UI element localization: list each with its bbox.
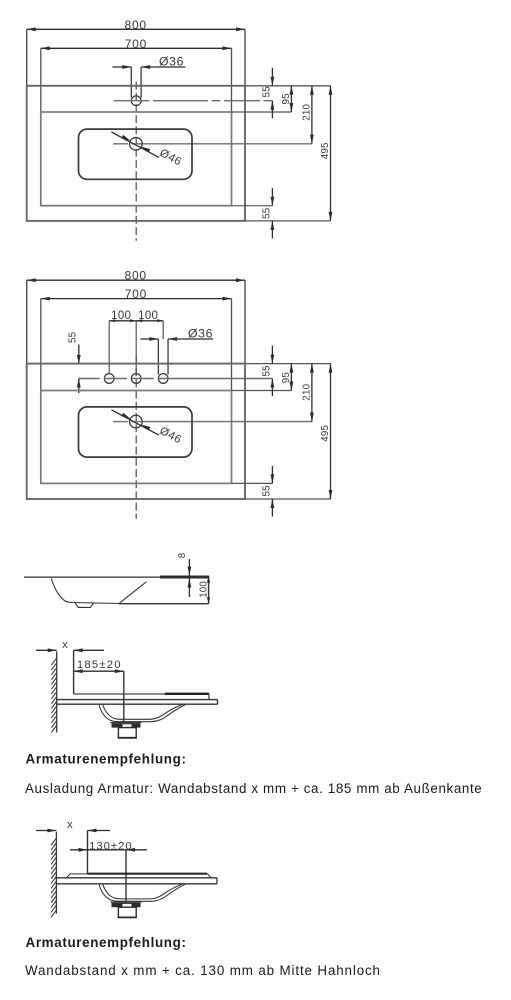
basin top edge extension (view 1) [245, 85, 331, 87]
bowl outer contour (view 4) [99, 705, 185, 722]
wall hatching (view 5) [51, 838, 56, 917]
svg-text:700: 700 [125, 37, 147, 51]
heading Armaturenempfehlung 1 [26, 752, 187, 767]
inner rim top extension (view 2) [232, 390, 292, 392]
svg-text:800: 800 [124, 18, 146, 32]
drain reference line (view 5) [125, 850, 127, 902]
dimension 800 (view 2) [27, 269, 245, 283]
svg-text:Ø36: Ø36 [188, 327, 213, 341]
basin bottom edge extension (view 2) [245, 498, 331, 500]
dimension 210 right (view 2) [302, 364, 314, 422]
dimension 700 (view 2) [41, 287, 232, 301]
inner rim bottom extension (view 1) [232, 205, 273, 207]
bowl inner contour (view 4) [103, 705, 182, 720]
heading Armaturenempfehlung 2 [26, 935, 187, 950]
drain leader line (view 1) [111, 132, 159, 157]
dimension 495 right (view 1) [320, 86, 333, 221]
counter top surface (view 5) [56, 877, 217, 879]
svg-text:55: 55 [262, 485, 273, 497]
basin top edge extension (view 2) [245, 363, 331, 365]
bowl rounded rectangle (view 1) [79, 129, 193, 179]
dimension 55 top right (view 2) [262, 346, 275, 397]
svg-text:95: 95 [281, 372, 292, 384]
dimension x (view 4) [36, 639, 104, 652]
extension line left 700 (view 2) [40, 299, 42, 391]
inner rim top extension (view 1) [232, 111, 292, 113]
extension line hole middle (view 2) [135, 321, 137, 374]
tap hole circle right Ø36 (view 2) [158, 374, 168, 384]
basin bottom edge extension (view 1) [245, 220, 331, 222]
deck front thick edge (view 4) [165, 693, 209, 695]
profile bowl contour [51, 578, 146, 603]
drain reference line (view 4) [123, 671, 125, 722]
tap hole circle left (view 2) [104, 374, 114, 384]
svg-text:95: 95 [281, 93, 292, 105]
profile top surface line [24, 576, 160, 578]
tap reference line (view 5) [87, 831, 89, 874]
extension line right 800 (view 1) [244, 29, 246, 86]
svg-text:55: 55 [262, 86, 273, 98]
svg-text:100: 100 [138, 310, 158, 322]
dimension Ø36 (view 1) [113, 55, 186, 69]
wall line (view 4) [56, 652, 58, 733]
basin outline 800x495 (view 2) [27, 364, 245, 499]
profile bottom line [119, 603, 209, 605]
text Ausladung Armatur [25, 781, 482, 796]
deck top line (view 4) [74, 693, 209, 695]
tap hole slot (view 1) [131, 67, 141, 98]
svg-text:210: 210 [302, 383, 313, 400]
basin outline 800x495 (view 1) [27, 86, 245, 221]
counter bottom surface (view 5) [56, 883, 217, 885]
tap hole centre line (view 2) [79, 378, 273, 380]
dimension 130±20 (view 5) [70, 840, 147, 852]
bowl inner contour (view 5) [103, 884, 182, 899]
profile top edge thick 8mm [160, 576, 209, 579]
tap reference line (view 4) [73, 650, 75, 694]
dimension 95 right (view 1) [281, 86, 293, 112]
svg-text:Wandabstand x mm + ca. 130 mm: Wandabstand x mm + ca. 130 mm ab Mitte H… [25, 963, 381, 978]
label Ø46 (view 2) [158, 425, 184, 446]
dimension 100-100 (view 2) [109, 310, 163, 322]
svg-text:495: 495 [320, 424, 331, 441]
profile drain bump [75, 603, 94, 608]
svg-text:55: 55 [262, 365, 273, 377]
bowl rounded rectangle (view 2) [79, 407, 193, 457]
dimension 185±20 (view 4) [74, 659, 124, 673]
svg-text:495: 495 [320, 142, 331, 159]
svg-text:Armaturenempfehlung:: Armaturenempfehlung: [26, 752, 187, 767]
drain circle Ø46 (view 1) [130, 138, 143, 151]
extension line right 800 (view 2) [244, 280, 246, 364]
extension line left 700 (view 1) [40, 48, 42, 112]
counter bottom surface (view 4) [57, 703, 218, 705]
dimension x (view 5) [36, 819, 110, 832]
drain centre line (view 2) [113, 421, 312, 423]
tap hole circle Ø36 (view 1) [131, 96, 141, 106]
dimension Ø36 (view 2) [141, 327, 214, 341]
svg-text:100: 100 [111, 310, 131, 322]
svg-text:210: 210 [302, 103, 313, 120]
svg-text:8: 8 [177, 552, 188, 558]
dimension 55 bottom right (view 1) [262, 188, 275, 238]
deck right step (view 4) [208, 694, 210, 700]
drain flange (view 4) [111, 723, 142, 728]
svg-text:55: 55 [67, 331, 78, 343]
counter front cap (view 4) [217, 700, 219, 705]
tap hole slot (view 2) [158, 339, 168, 375]
extension line hole right (view 2) [162, 321, 164, 339]
wall line (view 5) [55, 832, 57, 914]
dimension 55 bottom right (view 2) [262, 466, 275, 517]
svg-text:Ausladung Armatur: Wandabstand: Ausladung Armatur: Wandabstand x mm + ca… [25, 781, 482, 796]
dimension 495 right (view 2) [320, 364, 333, 499]
extension line left 800 (view 1) [26, 29, 28, 86]
svg-text:185±20: 185±20 [77, 659, 122, 671]
dimension 210 right (view 1) [302, 86, 314, 144]
dimension 700 (view 1) [41, 37, 232, 51]
profile front edge / dimension 100 [199, 576, 210, 604]
ceramic deck (view 5) [67, 874, 212, 878]
tap hole centre line (view 1) [114, 100, 273, 102]
dimension 800 (view 1) [27, 18, 245, 32]
extension line right 700 (view 2) [231, 299, 233, 391]
dimension 8 (profile) [177, 552, 191, 597]
dimension 95 right (view 2) [281, 364, 293, 391]
svg-text:x: x [62, 639, 68, 651]
drain leader line (view 2) [111, 410, 159, 435]
extension line hole left (view 2) [108, 321, 110, 374]
drain flange (view 5) [111, 902, 142, 907]
dimension 55 left (view 2) [67, 331, 80, 393]
text Wandabstand [25, 963, 381, 978]
counter top surface (view 4) [57, 699, 218, 701]
inner rim rectangle 700 (view 2) [41, 391, 232, 484]
svg-text:Ø36: Ø36 [159, 55, 184, 69]
dimension 55 top right (view 1) [262, 68, 275, 119]
vertical centre line (view 2) [135, 357, 137, 519]
drain circle Ø46 (view 2) [130, 415, 143, 428]
inner rim bottom extension (view 2) [232, 482, 273, 484]
svg-text:700: 700 [125, 287, 147, 301]
drain body (view 4) [118, 728, 137, 738]
svg-text:800: 800 [124, 269, 146, 283]
drain body (view 5) [118, 907, 137, 917]
wall hatching (view 4) [51, 658, 56, 732]
svg-text:x: x [67, 819, 73, 831]
bowl outer contour (view 5) [99, 884, 185, 901]
label Ø46 (view 1) [158, 147, 184, 168]
svg-text:Armaturenempfehlung:: Armaturenempfehlung: [26, 935, 187, 950]
counter front cap (view 5) [216, 878, 218, 884]
svg-text:100: 100 [199, 581, 210, 598]
extension line right 700 (view 1) [231, 48, 233, 112]
tap hole circle middle (view 2) [131, 374, 141, 384]
svg-text:55: 55 [262, 207, 273, 219]
inner rim rectangle 700 (view 1) [41, 112, 232, 206]
vertical centre line (view 1) [135, 82, 137, 241]
extension line left 800 (view 2) [26, 280, 28, 364]
drain centre line (view 1) [113, 143, 312, 145]
